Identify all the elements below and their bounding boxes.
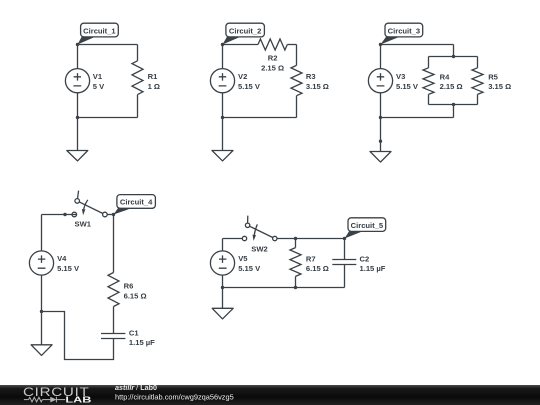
- svg-text:LAB: LAB: [65, 394, 91, 404]
- V4 label 5.15 V: [57, 254, 80, 273]
- svg-text:1.15 µF: 1.15 µF: [360, 264, 386, 273]
- svg-text:Circuit_4: Circuit_4: [120, 198, 153, 207]
- svg-text:2.15 Ω: 2.15 Ω: [261, 63, 284, 72]
- switch SW1: [72, 191, 107, 217]
- svg-text:6.15 Ω: 6.15 Ω: [124, 291, 147, 300]
- svg-text:SW1: SW1: [75, 220, 92, 229]
- svg-text:R6: R6: [124, 282, 134, 291]
- footer title astillr / Lab0: [115, 383, 157, 392]
- footer url: [115, 393, 234, 402]
- capacitor C1: [101, 334, 125, 339]
- svg-text:V2: V2: [238, 72, 247, 81]
- svg-text:5.15 V: 5.15 V: [238, 264, 261, 273]
- resistor R5: [472, 57, 483, 105]
- node junction bottom-left Circuit_4: [40, 310, 43, 313]
- svg-text:V5: V5: [238, 254, 248, 263]
- wire left upper Circuit_4: [41, 215, 43, 251]
- node junction bottom-left Circuit_5: [221, 286, 224, 289]
- node junction bottom Circuit_2: [221, 116, 224, 119]
- svg-text:R5: R5: [488, 72, 498, 81]
- svg-text:2.15 Ω: 2.15 Ω: [440, 82, 463, 91]
- node junction top-left Circuit_3: [379, 43, 382, 46]
- wire left lower Circuit_4: [41, 275, 43, 311]
- wire top-left Circuit_2: [223, 44, 259, 46]
- resistor R3: [291, 45, 302, 118]
- svg-text:http://circuitlab.com/cwg9zqa5: http://circuitlab.com/cwg9zqa56vzg5: [115, 393, 234, 402]
- wire left lower Circuit_5: [222, 275, 224, 287]
- svg-text:5 V: 5 V: [93, 82, 105, 91]
- wire switch to C2 branch Circuit_5: [277, 238, 345, 240]
- wire left upper Circuit_3: [380, 45, 382, 69]
- R6 label 6.15 Ohm: [124, 282, 147, 301]
- svg-text:V1: V1: [93, 72, 103, 81]
- resistor R7: [290, 239, 301, 288]
- svg-text:6.15 Ω: 6.15 Ω: [306, 264, 329, 273]
- wire top Circuit_3: [381, 45, 454, 57]
- wire left lower Circuit_1: [77, 93, 79, 118]
- flag label Circuit_5: [345, 218, 386, 239]
- flag label Circuit_3: [381, 23, 423, 44]
- svg-text:3.15 Ω: 3.15 Ω: [306, 82, 329, 91]
- svg-text:Circuit_3: Circuit_3: [388, 26, 421, 35]
- wire left lower Circuit_2: [222, 93, 224, 118]
- svg-text:Circuit_1: Circuit_1: [83, 26, 116, 35]
- wire R6 to C1: [113, 307, 115, 334]
- wire top Circuit_1: [78, 44, 138, 46]
- node junction bottom Circuit_1: [76, 116, 79, 119]
- wire bottom Circuit_5: [223, 287, 345, 289]
- node junction top-left Circuit_1: [76, 43, 79, 46]
- capacitor C2: [332, 239, 356, 288]
- svg-text:R3: R3: [306, 72, 316, 81]
- svg-text:R7: R7: [306, 254, 316, 263]
- ground Circuit_5: [212, 288, 233, 319]
- svg-text:astillr / Lab0: astillr / Lab0: [115, 383, 157, 392]
- R5 label 3.15 Ohm: [488, 72, 511, 90]
- SW1 label: [75, 220, 92, 229]
- svg-text:1.15 µF: 1.15 µF: [129, 338, 155, 347]
- node junction bottom bar Circuit_3: [452, 103, 455, 106]
- svg-text:R4: R4: [440, 72, 450, 81]
- logo circuit doodle: wire, resistor zigzag, diode, wire: [24, 397, 65, 403]
- V5 label 5.15 V: [238, 254, 261, 273]
- V1 label 5 V: [93, 72, 105, 91]
- R2 value label 2.15 Ohm: [261, 53, 284, 72]
- voltage source V1: [65, 69, 89, 93]
- svg-text:Circuit_5: Circuit_5: [351, 221, 384, 230]
- wire left upper Circuit_2: [222, 45, 224, 69]
- ground Circuit_2: [212, 118, 233, 161]
- svg-text:R2: R2: [268, 53, 278, 62]
- wire left lower Circuit_3: [380, 93, 382, 118]
- node junction C2 top: [343, 237, 346, 240]
- SW2 label: [251, 245, 267, 254]
- wire left upper Circuit_5: [222, 239, 224, 251]
- C1 label 1.15 uF: [129, 328, 155, 347]
- svg-text:5.15 V: 5.15 V: [57, 264, 80, 273]
- flag label Circuit_2: [223, 23, 265, 44]
- svg-text:C1: C1: [129, 328, 139, 337]
- R3 label 3.15 Ohm: [306, 72, 329, 91]
- svg-text:C2: C2: [360, 254, 370, 263]
- node junction top bar Circuit_3: [452, 55, 455, 58]
- node junction R7 top: [294, 237, 297, 240]
- voltage source V3: [368, 69, 392, 93]
- svg-text:V3: V3: [396, 72, 405, 81]
- footer bar: [0, 385, 540, 405]
- V2 label 5.15 V: [238, 72, 261, 91]
- wire top bar Circuit_3: [429, 56, 478, 58]
- svg-text:Circuit_2: Circuit_2: [229, 26, 262, 35]
- node junction top-left Circuit_2: [221, 43, 224, 46]
- voltage source V4: [29, 251, 53, 275]
- R4 label 2.15 Ohm: [440, 72, 463, 90]
- R1 label 1 Ohm: [148, 72, 160, 91]
- svg-text:V4: V4: [57, 254, 67, 263]
- svg-text:5.15 V: 5.15 V: [396, 82, 419, 91]
- R7 label 6.15 Ohm: [306, 254, 329, 273]
- node junction bottom-left Circuit_3: [379, 116, 382, 119]
- wire bottom bar Circuit_3: [429, 105, 478, 118]
- node junction top-right Circuit_4: [112, 213, 115, 216]
- V3 label 5.15 V: [396, 72, 419, 91]
- wire bottom Circuit_3: [381, 117, 454, 119]
- svg-text:5.15 V: 5.15 V: [238, 82, 261, 91]
- CircuitLab logo wordmark LAB: [65, 394, 91, 404]
- voltage source V5: [210, 251, 234, 275]
- CircuitLab logo wordmark CIRCUIT: [23, 385, 90, 399]
- wire bottom Circuit_2: [223, 117, 297, 119]
- svg-text:3.15 Ω: 3.15 Ω: [488, 82, 511, 91]
- flag label Circuit_1: [78, 23, 119, 44]
- node junction on top wire Circuit_4: [63, 213, 66, 216]
- node junction R7 bottom: [294, 286, 297, 289]
- wire top-left Circuit_5: [223, 238, 243, 240]
- svg-text:SW2: SW2: [251, 245, 267, 254]
- switch SW2: [242, 216, 277, 241]
- svg-text:1 Ω: 1 Ω: [148, 82, 160, 91]
- wire switch to corner Circuit_4: [107, 214, 113, 216]
- wire left upper Circuit_1: [77, 45, 79, 69]
- flag label Circuit_4: [114, 195, 156, 215]
- ground Circuit_4: [31, 312, 52, 356]
- resistor R1: [132, 45, 143, 118]
- voltage source V2: [210, 69, 234, 93]
- resistor R2: [258, 39, 297, 50]
- wire right upper Circuit_4: [113, 215, 115, 273]
- ground Circuit_1: [67, 118, 88, 161]
- C2 label 1.15 uF: [360, 254, 386, 273]
- svg-text:R1: R1: [148, 72, 158, 81]
- wire top-left Circuit_4: [42, 214, 73, 216]
- wire bottom Circuit_1: [78, 117, 138, 119]
- wire C1 to bottom rail Circuit_4: [42, 312, 114, 360]
- ground Circuit_3: [370, 118, 391, 163]
- resistor R4: [423, 57, 434, 105]
- resistor R6: [108, 273, 119, 307]
